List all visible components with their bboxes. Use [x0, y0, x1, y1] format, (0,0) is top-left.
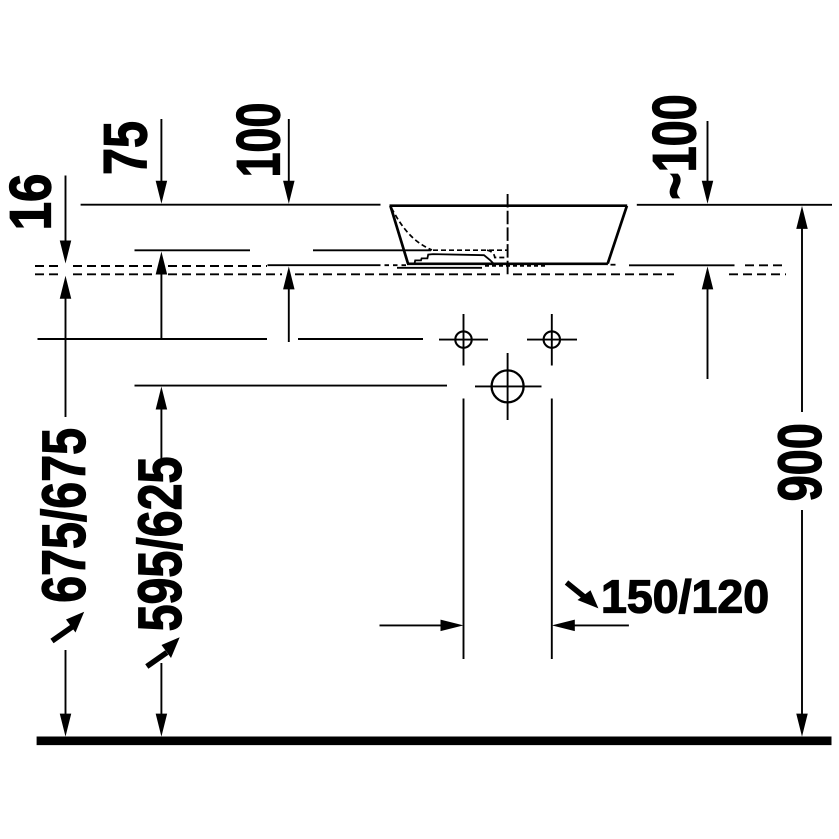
arrowhead 75 down: [156, 181, 168, 204]
basin inner dashed ledge: [433, 250, 507, 257]
arrowhead 900 floor down: [796, 714, 808, 737]
arrowhead under-basin up: [283, 266, 295, 289]
wire dashed continuation right of basin: [745, 264, 786, 266]
arrowhead shelf up: [156, 252, 168, 275]
node faucet hole left crosshair: [439, 339, 488, 341]
circle faucet hole right: [544, 331, 560, 347]
wire dimension 100 vertical: [288, 119, 290, 193]
floor line: [37, 736, 832, 745]
arrowhead 100 down: [283, 181, 295, 204]
wire solid line under basin left: [268, 264, 377, 266]
wire hidden edge dashed line lower: [35, 273, 786, 275]
node drain hole crosshair: [475, 385, 542, 387]
wire dimension 900 vertical upper: [801, 215, 803, 412]
wire dimension 675/675 vertical upper: [65, 287, 67, 417]
arrowhead 900 up: [796, 206, 808, 229]
wire shelf line right segment: [313, 249, 431, 251]
wire dimension ~100 vertical: [707, 121, 709, 193]
basin centerline: [507, 194, 509, 275]
svg-text:100: 100: [226, 103, 293, 178]
basin bottom right stub: [611, 264, 616, 266]
wire horizontal line y339 left: [38, 338, 268, 340]
basin under dense dashes: [485, 265, 545, 267]
basin inner bowl dashed curve: [392, 208, 433, 250]
wire dimension 150/120 horizontal left: [380, 624, 446, 626]
wire dimension 595/625 vertical upper: [160, 396, 162, 459]
svg-text:75: 75: [91, 121, 160, 175]
wire horizontal line y339 right: [298, 338, 423, 340]
wire hidden edge dashed line upper left: [35, 265, 267, 267]
basin under line thin: [397, 267, 482, 269]
arrowhead 150/120 left: [552, 620, 575, 632]
arrowhead ~100 down: [702, 181, 714, 204]
arrowhead right up: [702, 266, 714, 289]
basin rim: [390, 204, 628, 207]
wire dimension 16 upper vertical: [65, 176, 67, 251]
arrowhead 595/625 floor down: [156, 714, 168, 737]
svg-text:~100: ~100: [640, 94, 708, 199]
arrowhead 16 up: [60, 276, 72, 299]
basin under dense dashes left: [376, 264, 407, 266]
svg-text:595/625: 595/625: [126, 457, 195, 632]
wire dimension 900 vertical lower: [801, 510, 803, 728]
basin left wall: [390, 206, 408, 264]
node faucet hole right crosshair: [527, 339, 577, 341]
svg-text:675/675: 675/675: [30, 428, 99, 603]
svg-text:150/120: 150/120: [601, 571, 769, 623]
leader arrow 595/625: [147, 637, 180, 666]
arrowhead 675/675 floor down: [60, 714, 72, 737]
wire dimension 75 vertical: [160, 119, 162, 193]
wire shelf line left segment: [135, 249, 251, 251]
wire dimension vertical right below line: [707, 275, 709, 379]
wire countertop top line right segment: [637, 204, 832, 206]
arrowhead 150/120 right: [441, 620, 464, 632]
leader arrow 675/675: [52, 612, 84, 641]
svg-text:16: 16: [0, 174, 63, 231]
wire dimension arrow under basin vertical: [288, 275, 290, 342]
wire dimension 675/675 vertical lower: [65, 650, 67, 728]
basin bottom: [407, 262, 608, 265]
wire dimension 150/120 horizontal right: [571, 624, 629, 626]
basin right wall: [608, 206, 627, 264]
wire horizontal line y385: [135, 385, 448, 387]
wire dimension shelf vertical: [160, 260, 162, 339]
arrowhead 16 down: [60, 241, 72, 264]
basin drain cover profile: [415, 254, 494, 263]
wire vertical extension below right faucet hole: [551, 399, 553, 660]
wire solid line right of basin: [629, 264, 735, 266]
wire vertical extension below left faucet hole: [463, 399, 465, 660]
svg-text:900: 900: [766, 423, 834, 501]
wire dimension 595/625 vertical lower: [160, 663, 162, 728]
arrowhead 595/625 up: [156, 387, 168, 410]
wire countertop top line left segment: [81, 204, 381, 206]
circle faucet hole left: [455, 331, 471, 347]
circle drain hole: [492, 370, 524, 402]
leader arrow 150/120: [567, 583, 599, 609]
